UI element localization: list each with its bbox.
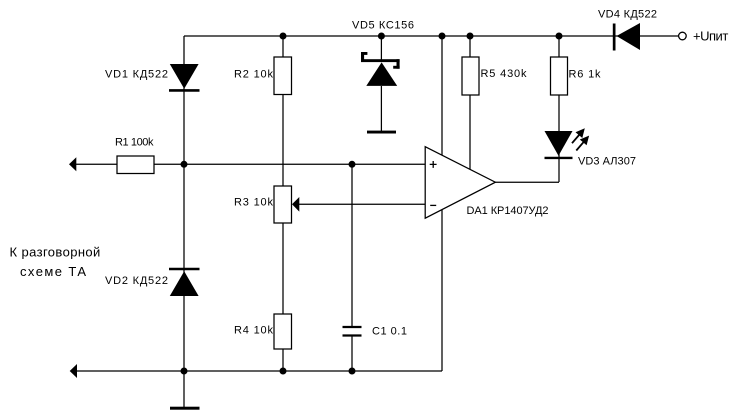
svg-text:VD5 КС156: VD5 КС156 [352,19,414,31]
wire C1 branch upper [351,164,353,326]
svg-text:C1 0.1: C1 0.1 [372,325,407,337]
node junction middle wire at C1 branch [349,161,356,168]
resistor R3 10k (trimmer) [274,186,292,223]
node junction bottom rail at C1 [349,368,356,375]
arrow left middle terminal [69,157,76,171]
resistor R5 430k [462,57,479,95]
wire op-amp supply pin [441,36,443,371]
resistor R2 10k [274,57,292,95]
node junction on rail at R6 [556,33,563,40]
svg-text:VD3 АЛ307: VD3 АЛ307 [578,156,636,168]
svg-text:R1 100k: R1 100k [115,137,154,149]
wire VD5 anode lead [380,86,382,131]
terminal circle +U [679,32,687,40]
node junction on rail at R2 [280,33,287,40]
wire wiper to inverting input [298,203,425,205]
svg-text:DA1 КР1407УД2: DA1 КР1407УД2 [467,205,549,217]
svg-text:схеме ТА: схеме ТА [20,264,86,279]
diode VD1 КД522 [169,64,200,90]
diode VD4 КД522 [613,23,640,51]
op-amp DA1 [425,147,495,219]
wire left vertical branch [183,36,185,407]
resistor R4 10k [274,314,292,349]
wire bottom rail [73,370,442,372]
terminal bar bottom left [170,407,200,410]
wire R6 LED branch [558,36,560,182]
svg-text:VD2 КД522: VD2 КД522 [105,275,168,287]
node junction on rail at VD5 [378,33,385,40]
arrow LED emission 1 [572,135,580,144]
capacitor C1 [343,327,362,336]
wire R5 to op-amp [469,36,471,172]
op-amp minus sign [430,204,436,206]
svg-text:R6 1k: R6 1k [569,68,602,80]
wire divider chain R2-R3-R4 [282,36,284,371]
svg-text:VD1 КД522: VD1 КД522 [105,68,168,80]
node junction on rail at op-amp pin [439,33,446,40]
svg-text:VD4 КД522: VD4 КД522 [598,9,657,21]
wire middle horizontal to non-inverting input [74,163,425,165]
arrow R3 wiper [292,197,299,212]
wire VD5 cathode lead [380,36,382,62]
svg-text:R4 10k: R4 10k [234,324,274,336]
wire C1 branch lower [351,336,353,371]
arrow left bottom terminal [70,364,77,378]
LED VD3 АЛ307 [545,128,590,158]
svg-text:R5 430k: R5 430k [481,68,528,80]
diode VD2 КД522 [169,269,200,296]
op-amp plus sign [430,161,437,168]
svg-text:+Uпит: +Uпит [693,29,728,44]
svg-text:К разговорной: К разговорной [10,245,101,260]
node junction on rail at R5 [467,33,474,40]
resistor R6 1k [551,57,568,95]
wire op-amp output [495,181,559,183]
wire top supply rail [184,35,679,37]
node junction bottom rail at left branch [181,368,188,375]
zener VD5 КС156 [361,52,400,86]
node junction middle wire at left branch [181,161,188,168]
node junction bottom rail at R4 [280,368,287,375]
terminal bar below VD5 [367,131,396,134]
svg-text:R2 10k: R2 10k [234,68,274,80]
arrow LED emission 2 [576,142,584,151]
resistor R1 100k [117,156,154,174]
svg-text:R3 10k: R3 10k [234,196,274,208]
